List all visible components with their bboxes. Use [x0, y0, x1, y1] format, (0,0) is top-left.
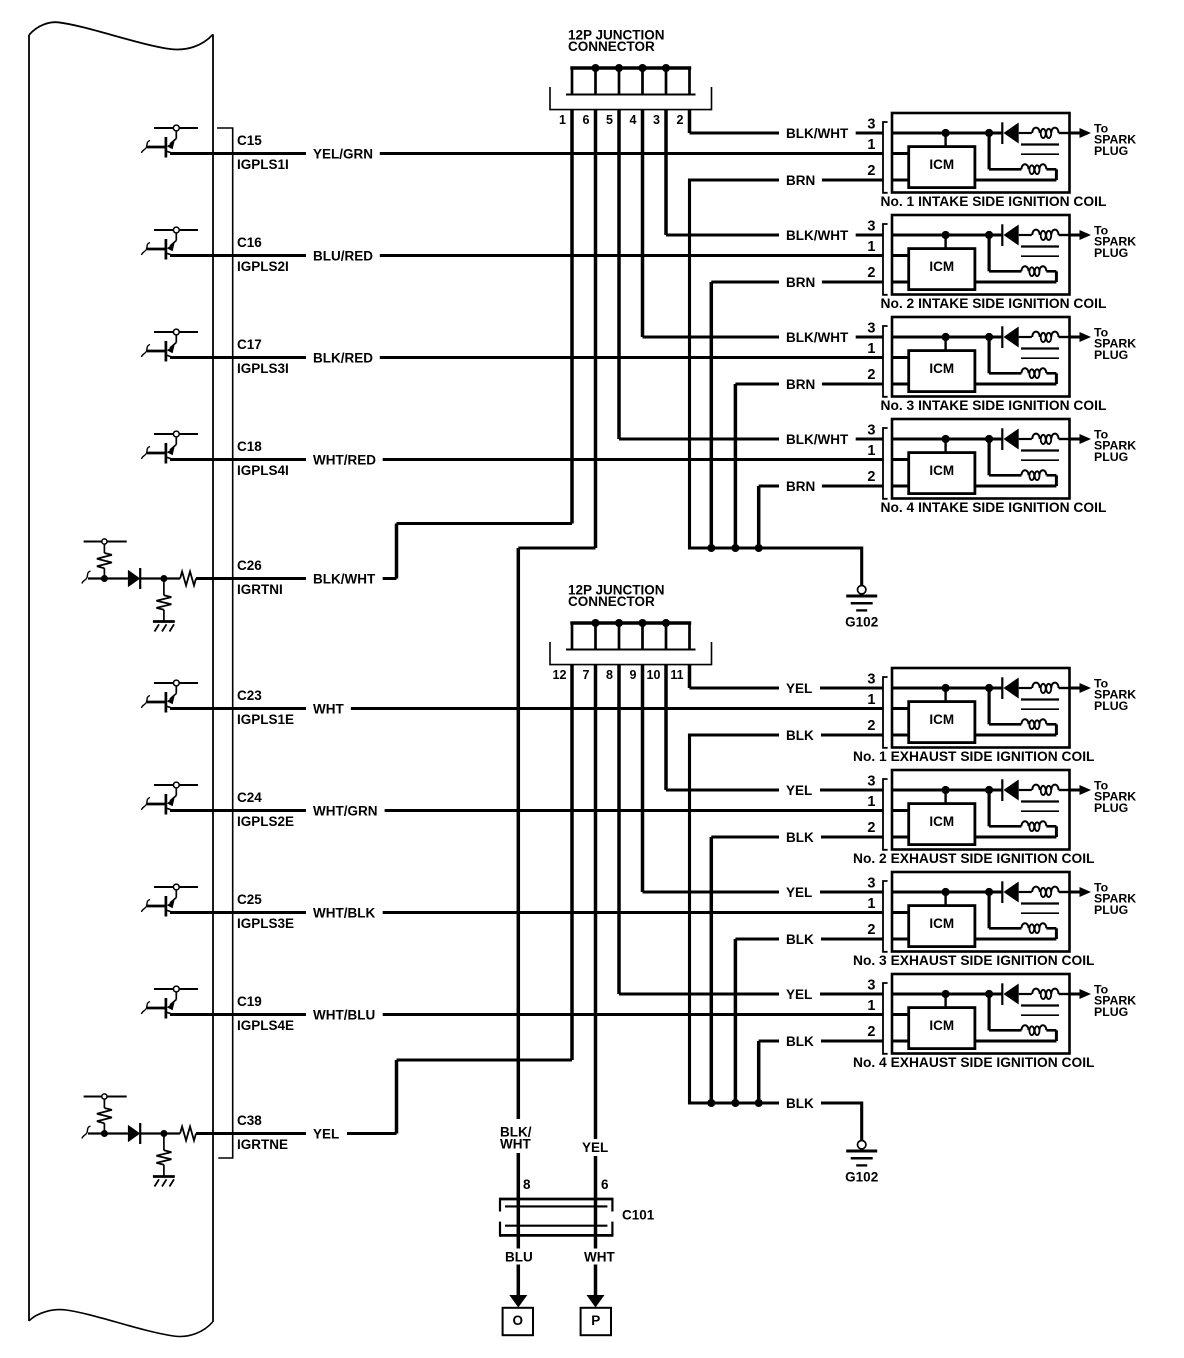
svg-text:WHT: WHT — [584, 1250, 615, 1265]
svg-text:BLK/RED: BLK/RED — [313, 350, 373, 365]
transistor driver for C17 — [142, 329, 199, 361]
svg-text:YEL: YEL — [786, 681, 812, 696]
transistor driver for C16 — [142, 227, 199, 259]
svg-text:CONNECTOR: CONNECTOR — [568, 39, 655, 54]
svg-text:G102: G102 — [845, 615, 878, 630]
junction connector cavity numbers 12 7 8 9 10 11 — [553, 668, 684, 682]
ECM module outline (torn-edge box) — [29, 22, 213, 1336]
svg-text:PLUG: PLUG — [1094, 1005, 1128, 1019]
wire labels at C101: BLK/WHT (terminal 8) and YEL (terminal 6) — [497, 1119, 612, 1192]
pin C38 wire YEL — [196, 1125, 397, 1142]
wire: junction pin 12 to C38 (YEL) — [397, 665, 573, 1134]
svg-text:10: 10 — [647, 668, 661, 682]
svg-text:ICM: ICM — [929, 361, 954, 376]
svg-text:WHT/GRN: WHT/GRN — [313, 803, 378, 818]
svg-text:2: 2 — [867, 1024, 875, 1040]
12P junction connector body — [550, 64, 712, 110]
svg-text:BRN: BRN — [786, 377, 815, 392]
svg-text:CONNECTOR: CONNECTOR — [568, 594, 655, 609]
svg-text:PLUG: PLUG — [1094, 348, 1128, 362]
svg-text:ICM: ICM — [929, 712, 954, 727]
destination terminal P — [581, 1308, 611, 1335]
junction connector title — [568, 28, 665, 55]
svg-text:3: 3 — [867, 117, 875, 133]
svg-text:ICM: ICM — [929, 157, 954, 172]
svg-text:ICM: ICM — [929, 1018, 954, 1033]
svg-text:3: 3 — [653, 113, 660, 127]
svg-text:2: 2 — [867, 820, 875, 836]
wire: junction pin 1 to C26 (BLK/WHT) — [397, 110, 573, 579]
svg-text:1: 1 — [867, 443, 875, 459]
svg-text:2: 2 — [867, 469, 875, 485]
svg-text:C17: C17 — [237, 337, 262, 352]
svg-text:No. 4 INTAKE SIDE IGNITION COI: No. 4 INTAKE SIDE IGNITION COIL — [881, 500, 1107, 515]
svg-text:2: 2 — [867, 718, 875, 734]
internal diode/resistor network for C38 — [82, 1094, 196, 1187]
svg-text:BLK/WHT: BLK/WHT — [313, 571, 376, 586]
svg-text:1: 1 — [867, 239, 875, 255]
svg-text:BLK/WHT: BLK/WHT — [786, 330, 849, 345]
svg-text:No. 2 INTAKE SIDE IGNITION COI: No. 2 INTAKE SIDE IGNITION COIL — [881, 296, 1107, 311]
terminal label C19 / IGPLS4E — [237, 994, 294, 1033]
terminal label C15 / IGPLS1I — [237, 133, 289, 172]
svg-text:2: 2 — [677, 113, 684, 127]
svg-text:IGPLS1I: IGPLS1I — [237, 157, 289, 172]
No. 4 EXHAUST coil pin numbers and spark plug note — [883, 974, 1091, 1054]
ground G102 (exhaust side) — [845, 1141, 878, 1185]
svg-text:9: 9 — [630, 668, 637, 682]
svg-text:C25: C25 — [237, 892, 262, 907]
label BLK/WHT feed + BRN return, intake coil 3 — [779, 329, 856, 393]
svg-text:WHT/BLU: WHT/BLU — [313, 1007, 375, 1022]
internal diode/resistor network for C26 — [82, 539, 196, 632]
wire: junction pin 7 down to C101 terminal 6 — [594, 665, 598, 1297]
svg-text:No. 3 EXHAUST SIDE IGNITION CO: No. 3 EXHAUST SIDE IGNITION COIL — [853, 953, 1094, 968]
svg-text:1: 1 — [867, 341, 875, 357]
junction connector cavity numbers 1 6 5 4 3 2 — [559, 113, 684, 127]
svg-text:BLU/RED: BLU/RED — [313, 248, 373, 263]
svg-text:6: 6 — [601, 1177, 609, 1192]
label YEL feed + BLK return, exhaust coil 1 — [779, 680, 821, 744]
svg-text:C15: C15 — [237, 133, 262, 148]
terminal label C24 / IGPLS2E — [237, 790, 294, 829]
svg-text:PLUG: PLUG — [1094, 801, 1128, 815]
svg-text:5: 5 — [606, 113, 613, 127]
terminal label C26 / IGRTNI — [237, 558, 283, 597]
svg-text:4: 4 — [630, 113, 637, 127]
svg-text:1: 1 — [867, 998, 875, 1014]
No. 3 INTAKE coil pin numbers and spark plug note — [883, 317, 1091, 397]
svg-text:8: 8 — [606, 668, 613, 682]
svg-text:7: 7 — [583, 668, 590, 682]
svg-text:3: 3 — [867, 321, 875, 337]
label YEL feed + BLK return, exhaust coil 4 — [779, 986, 821, 1050]
svg-text:No. 1 EXHAUST SIDE IGNITION CO: No. 1 EXHAUST SIDE IGNITION COIL — [853, 749, 1094, 764]
pin C26 wire BLK/WHT — [196, 570, 397, 587]
svg-text:C16: C16 — [237, 235, 262, 250]
wire: junction pin 9 to exhaust coil feed — [643, 665, 884, 892]
svg-text:IGPLS3E: IGPLS3E — [237, 916, 294, 931]
No. 3 EXHAUST coil pin numbers and spark plug note — [883, 872, 1091, 952]
svg-text:3: 3 — [867, 876, 875, 892]
svg-text:BRN: BRN — [786, 173, 815, 188]
terminal label C38 / IGRTNE — [237, 1113, 288, 1152]
svg-text:BLU: BLU — [505, 1250, 533, 1265]
connector C101 — [500, 1198, 655, 1237]
junction connector title — [568, 583, 665, 610]
transistor driver for C19 — [142, 986, 199, 1018]
svg-text:2: 2 — [867, 922, 875, 938]
svg-text:C26: C26 — [237, 558, 262, 573]
wire: junction pin 3 to intake coil feed — [666, 110, 883, 235]
svg-text:No. 1 INTAKE SIDE IGNITION COI: No. 1 INTAKE SIDE IGNITION COIL — [881, 194, 1107, 209]
svg-text:6: 6 — [583, 113, 590, 127]
svg-text:IGPLS4I: IGPLS4I — [237, 463, 289, 478]
svg-text:BLK: BLK — [786, 1034, 814, 1049]
svg-text:IGRTNI: IGRTNI — [237, 582, 283, 597]
svg-text:ICM: ICM — [929, 259, 954, 274]
wire: junction pin 5 to intake coil feed — [619, 110, 883, 439]
svg-text:IGPLS1E: IGPLS1E — [237, 712, 294, 727]
svg-text:YEL: YEL — [582, 1140, 608, 1155]
svg-text:O: O — [513, 1313, 524, 1328]
svg-text:C24: C24 — [237, 790, 262, 805]
svg-text:3: 3 — [867, 219, 875, 235]
svg-text:No. 3 INTAKE SIDE IGNITION COI: No. 3 INTAKE SIDE IGNITION COIL — [881, 398, 1107, 413]
svg-text:No. 2 EXHAUST SIDE IGNITION CO: No. 2 EXHAUST SIDE IGNITION COIL — [853, 851, 1094, 866]
transistor driver for C24 — [142, 782, 199, 814]
svg-text:1: 1 — [867, 137, 875, 153]
svg-text:3: 3 — [867, 978, 875, 994]
svg-text:BLK/WHT: BLK/WHT — [786, 126, 849, 141]
wire: junction pin 2 to intake coil feed — [690, 110, 884, 133]
svg-text:ICM: ICM — [929, 814, 954, 829]
wire: intake coil ground returns (BRN) to bus — [690, 180, 909, 586]
svg-text:G102: G102 — [845, 1170, 878, 1185]
terminal label C17 / IGPLS3I — [237, 337, 289, 376]
svg-text:C18: C18 — [237, 439, 262, 454]
svg-text:PLUG: PLUG — [1094, 144, 1128, 158]
wire: junction pin 6 down to C101 terminal 8 — [518, 110, 595, 1297]
svg-text:PLUG: PLUG — [1094, 699, 1128, 713]
svg-text:PLUG: PLUG — [1094, 903, 1128, 917]
svg-text:PLUG: PLUG — [1094, 246, 1128, 260]
svg-text:WHT/RED: WHT/RED — [313, 452, 376, 467]
svg-text:YEL: YEL — [786, 987, 812, 1002]
wire: junction pin 8 to exhaust coil feed — [619, 665, 883, 994]
transistor driver for C25 — [142, 884, 199, 916]
svg-text:BLK/WHT: BLK/WHT — [786, 228, 849, 243]
wire: junction pin 4 to intake coil feed — [643, 110, 884, 337]
No. 1 EXHAUST coil pin numbers and spark plug note — [883, 668, 1091, 748]
svg-text:YEL: YEL — [786, 885, 812, 900]
terminal label C18 / IGPLS4I — [237, 439, 289, 478]
svg-text:ICM: ICM — [929, 916, 954, 931]
svg-text:3: 3 — [867, 672, 875, 688]
label YEL feed + BLK return, exhaust coil 3 — [779, 884, 821, 948]
svg-text:11: 11 — [670, 668, 683, 682]
wire: junction pin 10 to exhaust coil feed — [666, 665, 883, 790]
svg-text:YEL: YEL — [786, 783, 812, 798]
svg-text:C23: C23 — [237, 688, 262, 703]
svg-text:BLK/WHT: BLK/WHT — [786, 432, 849, 447]
svg-text:YEL/GRN: YEL/GRN — [313, 146, 373, 161]
svg-text:IGPLS4E: IGPLS4E — [237, 1018, 294, 1033]
svg-text:1: 1 — [559, 113, 566, 127]
svg-text:8: 8 — [523, 1177, 531, 1192]
wire to terminal O (BLU) — [501, 1249, 535, 1308]
pin C17 wire BLK/RED — [170, 349, 909, 366]
svg-text:No. 4 EXHAUST SIDE IGNITION CO: No. 4 EXHAUST SIDE IGNITION COIL — [853, 1055, 1094, 1070]
svg-text:2: 2 — [867, 265, 875, 281]
No. 1 INTAKE coil pin numbers and spark plug note — [883, 113, 1091, 193]
svg-text:12: 12 — [553, 668, 567, 682]
svg-text:2: 2 — [867, 367, 875, 383]
svg-text:P: P — [591, 1313, 600, 1328]
transistor driver for C15 — [142, 125, 199, 157]
pin C18 wire WHT/RED — [170, 451, 909, 468]
terminal label C25 / IGPLS3E — [237, 892, 294, 931]
svg-text:1: 1 — [867, 896, 875, 912]
svg-text:BLK: BLK — [786, 1096, 814, 1111]
svg-text:BRN: BRN — [786, 479, 815, 494]
label BLK/WHT feed + BRN return, intake coil 4 — [779, 431, 856, 495]
label BLK/WHT feed + BRN return, intake coil 2 — [779, 227, 856, 291]
label BLK/WHT feed + BRN return, intake coil 1 — [779, 125, 856, 189]
wire to terminal P (WHT) — [580, 1249, 618, 1308]
label YEL feed + BLK return, exhaust coil 2 — [779, 782, 821, 846]
svg-text:1: 1 — [867, 794, 875, 810]
wire: exhaust coil ground returns (BLK) to bus — [690, 735, 909, 1141]
svg-text:C38: C38 — [237, 1113, 262, 1128]
svg-text:BLK: BLK — [786, 728, 814, 743]
svg-text:ICM: ICM — [929, 463, 954, 478]
svg-text:PLUG: PLUG — [1094, 450, 1128, 464]
svg-text:C19: C19 — [237, 994, 262, 1009]
svg-text:WHT: WHT — [500, 1137, 531, 1152]
svg-text:BLK: BLK — [786, 830, 814, 845]
svg-text:1: 1 — [867, 692, 875, 708]
svg-text:IGPLS2E: IGPLS2E — [237, 814, 294, 829]
pin C16 wire BLU/RED — [170, 247, 909, 264]
wire: junction pin 11 to exhaust coil feed — [690, 665, 884, 688]
svg-text:3: 3 — [867, 774, 875, 790]
pin C19 wire WHT/BLU — [170, 1006, 909, 1023]
No. 2 INTAKE coil pin numbers and spark plug note — [883, 215, 1091, 295]
svg-text:3: 3 — [867, 423, 875, 439]
svg-text:BLK: BLK — [786, 932, 814, 947]
destination terminal O — [503, 1308, 533, 1335]
No. 2 EXHAUST coil pin numbers and spark plug note — [883, 770, 1091, 850]
pin C24 wire WHT/GRN — [170, 802, 909, 819]
pin C15 wire YEL/GRN — [170, 145, 909, 162]
pin C25 wire WHT/BLK — [170, 904, 909, 921]
svg-text:IGPLS3I: IGPLS3I — [237, 361, 289, 376]
transistor driver for C23 — [142, 680, 199, 712]
ground G102 (intake side) — [845, 586, 878, 630]
svg-text:WHT: WHT — [313, 701, 344, 716]
pin C23 wire WHT — [170, 700, 909, 717]
svg-text:2: 2 — [867, 163, 875, 179]
terminal label C23 / IGPLS1E — [237, 688, 294, 727]
svg-text:IGPLS2I: IGPLS2I — [237, 259, 289, 274]
12P junction connector body — [550, 619, 712, 665]
transistor driver for C18 — [142, 431, 199, 463]
terminal label C16 / IGPLS2I — [237, 235, 289, 274]
svg-text:YEL: YEL — [313, 1126, 339, 1141]
svg-text:C101: C101 — [622, 1208, 655, 1223]
svg-text:WHT/BLK: WHT/BLK — [313, 905, 375, 920]
svg-text:IGRTNE: IGRTNE — [237, 1137, 288, 1152]
ECM connector bracket — [217, 128, 233, 1158]
No. 4 INTAKE coil pin numbers and spark plug note — [883, 419, 1091, 499]
svg-text:BRN: BRN — [786, 275, 815, 290]
